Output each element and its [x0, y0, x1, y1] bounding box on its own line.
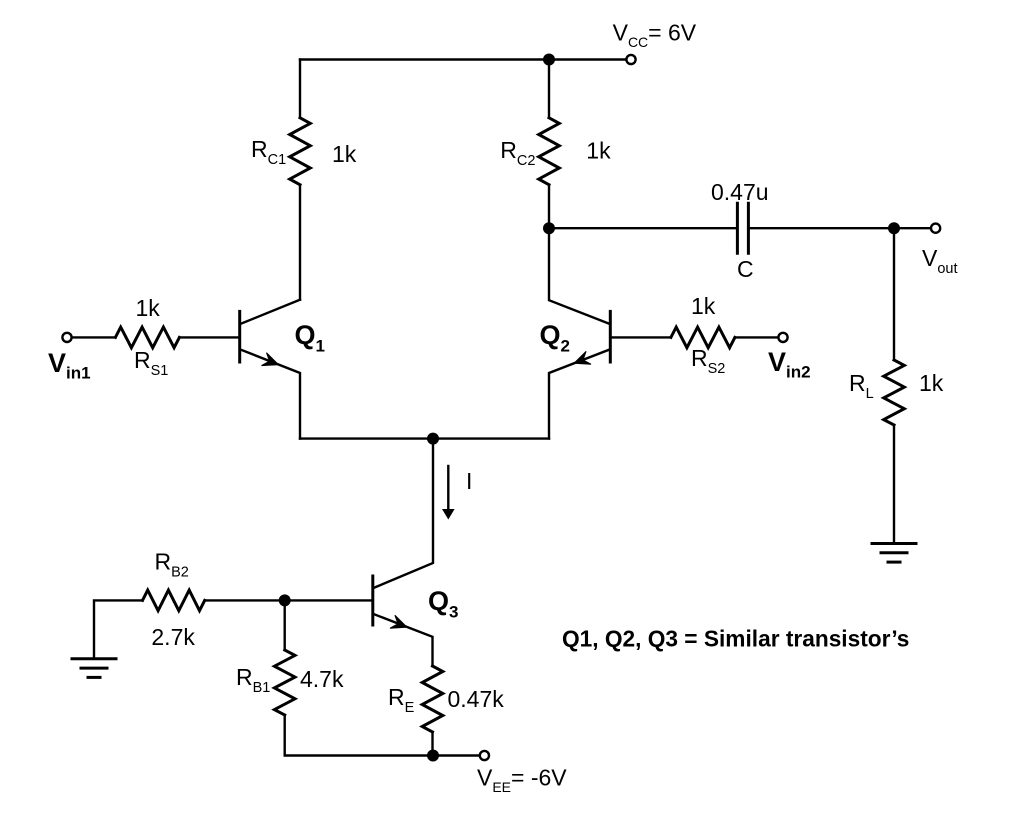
resistor RC1 [290, 118, 311, 185]
wire Q1 base [179, 336, 239, 338]
resistor RE [422, 666, 443, 732]
terminal Vin2 [778, 333, 787, 342]
wire output right [750, 227, 931, 229]
svg-text:RB2: RB2 [155, 549, 189, 581]
transistor Q2 bar [609, 311, 612, 362]
node Q3 base junction [279, 594, 291, 606]
wire RB2 left [94, 600, 143, 658]
svg-text:Q1: Q1 [295, 320, 325, 356]
wire RB1 top [284, 600, 286, 650]
wire Q1 emitter [241, 350, 300, 439]
wire Q3 base [205, 599, 373, 601]
resistor RS2 [671, 327, 735, 348]
svg-text:4.7k: 4.7k [300, 666, 344, 692]
resistor RL [884, 360, 905, 425]
resistor RC2 [539, 118, 560, 185]
wire Q2 emitter [549, 350, 609, 439]
wire Q2 collector [549, 228, 609, 324]
ground RL [872, 542, 916, 545]
wire RL bottom [893, 425, 895, 544]
wire RE bottom [431, 732, 433, 756]
wire Q2 base [610, 336, 671, 338]
wire tail rail [300, 437, 549, 439]
svg-text:1k: 1k [332, 141, 357, 167]
arrow Q1 emitter [262, 353, 279, 366]
arrow current I [447, 466, 449, 510]
node Vout junction [888, 222, 900, 234]
svg-text:RC1: RC1 [251, 136, 286, 168]
wire VEE [433, 754, 480, 756]
wire tail down [374, 439, 433, 588]
resistor RS1 [115, 327, 179, 348]
svg-text:1k: 1k [691, 293, 716, 319]
node VEE junction [427, 750, 439, 762]
wire Q1 collector [241, 300, 300, 324]
terminal Vin1 [62, 333, 71, 342]
wire Vin1 [72, 336, 116, 338]
node tail junction [427, 433, 439, 445]
svg-text:VEE= -6V: VEE= -6V [477, 764, 567, 795]
svg-text:2.7k: 2.7k [151, 624, 195, 650]
svg-text:Q1, Q2, Q3 = Similar transisto: Q1, Q2, Q3 = Similar transistor’s [562, 625, 909, 651]
wire Vcc rail [300, 58, 626, 60]
svg-text:Vout: Vout [922, 245, 958, 277]
wire RC1 top [299, 60, 301, 118]
terminal VEE [480, 751, 489, 760]
arrow Q3 emitter [390, 615, 407, 628]
arrow Q2 emitter [574, 351, 591, 364]
svg-text:RE: RE [388, 684, 415, 716]
ground RB2 [72, 657, 116, 660]
wire RB1 bottom [285, 715, 433, 756]
capacitor C plates [737, 203, 748, 253]
svg-text:0.47u: 0.47u [711, 179, 769, 205]
wire RL top [893, 228, 895, 360]
resistor RB2 [143, 590, 205, 611]
svg-text:RL: RL [849, 370, 874, 402]
resistor RB1 [274, 650, 295, 715]
terminal Vout [931, 224, 940, 233]
node RC2-output junction [543, 222, 555, 234]
wire Q3 emitter [374, 614, 433, 666]
node Vcc junction [543, 54, 555, 66]
terminal Vcc [626, 55, 635, 64]
wire Vin2 [735, 336, 779, 338]
svg-text:RS1: RS1 [134, 347, 168, 379]
svg-text:Q2: Q2 [540, 320, 570, 356]
wire RC2 bottom [548, 185, 550, 229]
svg-text:RB1: RB1 [236, 664, 270, 696]
transistor Q3 bar [371, 576, 374, 625]
svg-text:VCC= 6V: VCC= 6V [613, 19, 697, 50]
transistor Q1 bar [238, 311, 241, 362]
svg-text:I: I [466, 468, 472, 494]
svg-text:1k: 1k [586, 138, 611, 164]
wire RC2 top [548, 60, 550, 118]
svg-text:RC2: RC2 [500, 137, 535, 169]
svg-text:1k: 1k [919, 370, 944, 396]
svg-text:Vin2: Vin2 [768, 347, 811, 382]
svg-text:0.47k: 0.47k [448, 686, 505, 712]
svg-text:Q3: Q3 [428, 586, 458, 622]
svg-text:Vin1: Vin1 [48, 348, 91, 383]
wire RC1 bottom [299, 185, 301, 300]
svg-text:C: C [737, 256, 754, 282]
svg-text:1k: 1k [136, 295, 161, 321]
wire output left [549, 227, 736, 229]
